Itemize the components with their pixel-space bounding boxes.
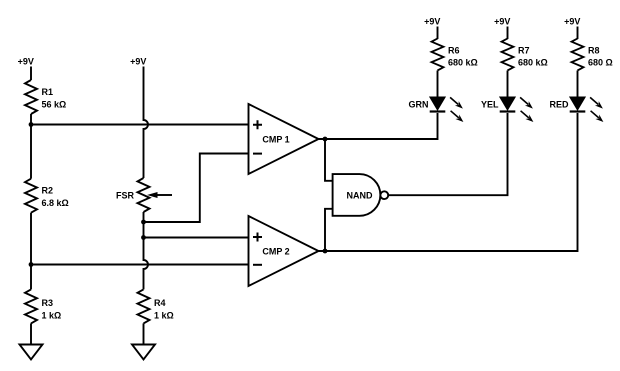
svg-text:YEL: YEL [481,100,499,110]
NAND gate U1 [333,174,381,216]
node: CMP2 output junction [323,249,328,254]
svg-text:R4: R4 [154,298,166,308]
svg-text:680 kΩ: 680 kΩ [448,57,478,67]
svg-text:1 kΩ: 1 kΩ [154,311,174,321]
svg-text:R6: R6 [448,46,460,56]
wire FSR to R4 with hop over CMP2 minus wire [144,212,149,289]
node: CMP1 output junction [323,137,328,142]
svg-text:680 kΩ: 680 kΩ [518,57,548,67]
wire +9V to R1 [30,67,32,81]
svg-text:NAND: NAND [347,191,373,201]
svg-text:1 kΩ: 1 kΩ [42,311,62,321]
resistor R7 [502,39,514,71]
svg-text:R3: R3 [42,298,54,308]
svg-text:R8: R8 [588,46,600,56]
ground (left column) [20,345,43,360]
node: FSR/CMP2 plus junction [141,235,146,240]
LED GRN [430,97,464,122]
svg-text:RED: RED [549,100,569,110]
svg-text:+9V: +9V [494,16,510,26]
wire node A to CMP1 plus input [31,124,249,126]
svg-text:+9V: +9V [130,57,146,67]
LED RED [570,97,604,122]
op-amp CMP 1 [249,104,319,174]
resistor R8 [572,39,584,71]
svg-text:CMP 1: CMP 1 [262,135,289,145]
wire NAND output to YEL LED column [388,113,507,195]
svg-text:6.8 kΩ: 6.8 kΩ [42,198,69,208]
ground (FSR column) [132,345,155,360]
wire CMP1 minus feedback to FSR junction [144,154,249,223]
svg-text:R1: R1 [42,87,54,97]
wire +9V to R8 [577,27,579,40]
node: R1/R2 junction [29,122,34,127]
wire +9V to R7 [507,27,509,40]
wire R3 to ground [30,323,32,344]
wire CMP1 output to GRN LED column [319,113,438,139]
svg-text:CMP 2: CMP 2 [262,247,289,257]
svg-text:+9V: +9V [424,16,440,26]
svg-text:56 kΩ: 56 kΩ [42,100,67,110]
svg-text:FSR: FSR [116,191,135,201]
wire CMP1 output to NAND input A [325,139,333,181]
wire R2 to R3 [30,213,32,290]
resistor R4 [138,289,150,323]
wire R7 to YEL LED [507,71,509,98]
wire R8 to RED LED [577,71,579,98]
wire FSR junction to CMP2 plus input [144,237,249,239]
svg-text:R7: R7 [518,46,530,56]
wire CMP2 output to RED LED column [319,113,578,251]
svg-text:680 Ω: 680 Ω [588,57,613,67]
FSR arrow [157,194,172,196]
svg-text:+9V: +9V [18,57,34,67]
resistor R3 [25,289,37,323]
wire node B to CMP2 minus input [31,264,249,266]
wire R6 to GRN LED [437,71,439,98]
wire CMP2 output to NAND input B [325,209,333,251]
FSR variable resistor [138,178,150,212]
svg-text:+9V: +9V [564,16,580,26]
resistor R6 [432,39,444,71]
wire R1 to R2 [30,114,32,179]
resistor R2 [25,179,37,213]
resistor R1 [25,80,37,114]
wire +9V to FSR with hop over CMP1 input wire [144,67,149,179]
node: R2/R3 junction [29,262,34,267]
wire +9V to R6 [437,27,439,40]
LED YEL [500,97,534,122]
svg-text:R2: R2 [42,186,54,196]
wire R4 to ground [143,323,145,344]
node: FSR/CMP1 feedback junction [141,220,146,225]
svg-text:GRN: GRN [409,100,429,110]
op-amp CMP 2 [249,216,319,286]
